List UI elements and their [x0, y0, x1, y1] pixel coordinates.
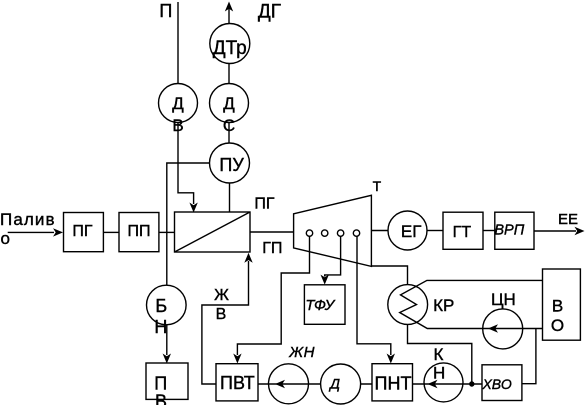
- wire ПУ down to steam generator top: [229, 183, 231, 212]
- turbine extraction port 2: [322, 230, 328, 236]
- svg-text:Н: Н: [154, 317, 167, 337]
- svg-text:ЕГ: ЕГ: [401, 222, 422, 241]
- wire БН down to ПВ arrow: [166, 325, 168, 355]
- svg-text:Ж: Ж: [214, 287, 229, 304]
- circle ДВ: [159, 84, 198, 123]
- arrowhead extraction 1 into ПВТ: [233, 354, 241, 364]
- arrowhead inside ЦН pump: [488, 324, 498, 332]
- wire extraction 3 to ТФУ: [325, 236, 341, 276]
- svg-text:В: В: [552, 297, 563, 316]
- svg-text:КР: КР: [433, 296, 454, 315]
- wire ЕГ to ГТ: [427, 230, 443, 232]
- wire extraction 4 to ПНТ: [357, 236, 391, 355]
- arrowhead inside ЖН pump: [275, 380, 285, 388]
- wire ПВТ to Д through ЖН pump: [258, 383, 321, 385]
- svg-text:Д: Д: [172, 94, 184, 113]
- wire ДГ exhaust up: [228, 4, 230, 24]
- svg-text:ПУ: ПУ: [219, 155, 244, 175]
- turbine extraction port 4: [353, 230, 359, 236]
- box ГТ: [443, 212, 483, 249]
- arrowhead ЖВ up into steam generator bottom: [244, 253, 252, 263]
- box ПНТ: [372, 364, 413, 401]
- svg-text:ТФУ: ТФУ: [305, 297, 335, 314]
- svg-text:ВРП: ВРП: [494, 223, 524, 239]
- svg-text:ЕЕ: ЕЕ: [558, 211, 578, 228]
- pump ЖН circle: [269, 364, 309, 404]
- svg-text:Д: Д: [328, 376, 340, 392]
- circle ПУ: [210, 143, 250, 183]
- wire ДС to ПУ: [228, 123, 230, 144]
- wire ВРП to ЕЕ output: [534, 230, 576, 232]
- svg-text:В: В: [172, 116, 183, 135]
- svg-text:П: П: [159, 1, 172, 21]
- box ВРП: [495, 212, 534, 249]
- wire turbine exhaust to condenser КР: [371, 266, 407, 285]
- svg-text:ЖН: ЖН: [288, 344, 315, 361]
- wire ДТр to ДС: [228, 64, 230, 84]
- svg-text:ЦН: ЦН: [491, 290, 516, 309]
- svg-text:ПНТ: ПНТ: [375, 374, 412, 394]
- wire ПГ to ПП: [103, 231, 119, 233]
- svg-text:ХВО: ХВО: [481, 376, 511, 392]
- svg-text:П: П: [154, 374, 167, 394]
- wire condenser condensate down right to junction: [408, 324, 472, 384]
- wire turbine to ЕГ: [371, 230, 388, 232]
- wire steam generator to turbine (ГП): [250, 231, 294, 233]
- box ПП: [119, 213, 159, 252]
- junction dot near КН: [469, 381, 474, 386]
- arrowhead inside КН pump: [428, 380, 438, 388]
- steam generator ПГ box: [175, 212, 251, 252]
- pump ЦН circle: [483, 309, 523, 349]
- svg-text:В: В: [216, 306, 227, 323]
- box ПВТ: [216, 364, 258, 401]
- steam generator diagonal: [175, 212, 251, 252]
- wire Д to ХВО through КН pump and junction: [361, 383, 482, 385]
- wire cooling water ВО to condenser with zigzag through КР: [400, 280, 543, 328]
- svg-text:ГТ: ГТ: [453, 224, 472, 241]
- wire ГТ to ВРП: [483, 230, 495, 232]
- arrowhead extraction 3 into ТФУ: [321, 275, 329, 285]
- wire ПП to steam generator: [159, 231, 175, 233]
- svg-text:Д: Д: [223, 94, 235, 113]
- arrowhead fuel into ПГ: [53, 228, 63, 236]
- svg-text:ПП: ПП: [128, 223, 151, 240]
- arrowhead ДГ up: [225, 2, 233, 12]
- condenser КР circle: [388, 285, 428, 325]
- circle БН: [147, 285, 187, 325]
- svg-text:ДТр: ДТр: [213, 38, 247, 59]
- box ПВ: [146, 363, 188, 399]
- box ТФУ: [304, 285, 345, 325]
- svg-text:ПВТ: ПВТ: [220, 373, 255, 393]
- wire fuel supply arrow (Паливо): [8, 231, 54, 233]
- turbine extraction port 3: [337, 230, 343, 236]
- svg-text:о: о: [1, 229, 10, 248]
- wire feedwater ЖВ from ПВТ up into steam generator bottom: [202, 261, 249, 384]
- svg-text:ПГ: ПГ: [72, 223, 93, 240]
- arrowhead БН into ПВ: [163, 354, 171, 364]
- svg-text:ПГ: ПГ: [254, 195, 275, 212]
- arrowhead ЕЕ output: [575, 227, 585, 235]
- generator ЕГ: [388, 211, 427, 250]
- wire extraction 1 to ПВТ: [237, 236, 309, 355]
- box ПГ (fuel preparation): [64, 213, 104, 252]
- svg-text:Т: Т: [373, 178, 382, 194]
- box ВО: [543, 269, 581, 340]
- arrowhead П into steam generator top: [189, 203, 197, 213]
- turbine extraction port 1: [306, 230, 312, 236]
- arrowhead extraction 4 into ПНТ: [387, 354, 395, 364]
- circle ДС: [210, 84, 249, 123]
- svg-text:ГП: ГП: [262, 240, 282, 257]
- circle ДТр: [210, 24, 250, 64]
- svg-text:Палив: Палив: [0, 210, 56, 229]
- deaerator Д: [321, 364, 361, 404]
- turbine Т trapezoid: [294, 195, 372, 266]
- svg-text:К: К: [434, 345, 444, 364]
- svg-text:С: С: [223, 116, 235, 135]
- svg-text:ДГ: ДГ: [258, 2, 281, 23]
- svg-text:О: О: [551, 316, 564, 335]
- svg-text:Б: Б: [155, 296, 167, 316]
- wire ХВО makeup from circulating line: [522, 329, 536, 384]
- pump КН circle: [424, 363, 463, 402]
- svg-text:В: В: [155, 392, 167, 405]
- wire ПУ left and down to БН: [167, 163, 210, 286]
- svg-text:Н: Н: [433, 364, 445, 383]
- wire П supply vertical with elbow into steam generator: [178, 2, 194, 204]
- box ХВО: [482, 365, 522, 401]
